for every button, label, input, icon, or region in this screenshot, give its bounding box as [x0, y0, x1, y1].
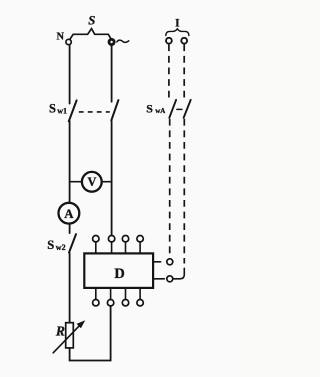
- svg-text:S: S: [47, 238, 54, 252]
- svg-text:R: R: [55, 324, 65, 339]
- svg-text:D: D: [114, 266, 124, 282]
- svg-text:A: A: [64, 207, 74, 221]
- svg-text:N: N: [57, 32, 65, 43]
- svg-text:wA: wA: [155, 107, 165, 115]
- svg-text:S: S: [88, 13, 95, 27]
- svg-text:S: S: [146, 101, 153, 115]
- svg-text:I: I: [175, 18, 180, 30]
- svg-text:w2: w2: [56, 243, 66, 252]
- svg-text:w1: w1: [57, 106, 67, 115]
- svg-text:V: V: [88, 175, 97, 189]
- svg-text:S: S: [49, 102, 56, 116]
